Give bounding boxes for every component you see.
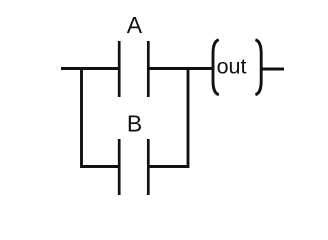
wire: left branch vertical down [80,67,83,166]
wire: bottom rung left (junction to contact B) [80,165,119,168]
wire: right branch vertical down [187,67,190,166]
wire: bottom rung right (contact B to right branch) [148,165,189,168]
svg-text:out: out [217,54,247,78]
wire: coil output to right [261,68,284,71]
node: branch junction left (top rail) [80,67,83,70]
contact A left bar [118,41,121,97]
node: branch junction right (top rail) [187,67,190,70]
svg-text:A: A [127,12,143,38]
wire: contact A to coil [148,67,213,70]
contact B right bar [147,139,150,195]
contact B left bar [118,139,121,195]
contact A right bar [147,41,150,97]
coil left parenthesis [213,40,219,95]
coil right parenthesis [255,40,261,95]
svg-text:B: B [127,110,142,136]
wire: left rail into contact A [61,67,119,70]
